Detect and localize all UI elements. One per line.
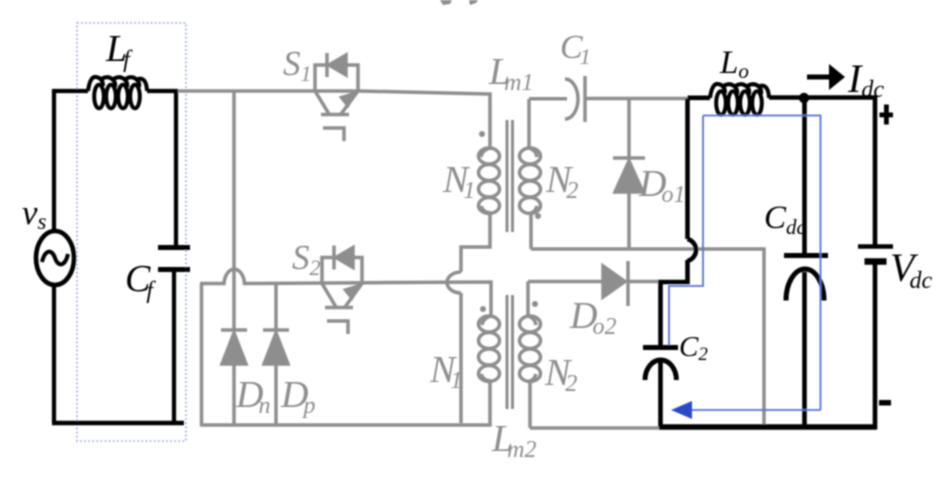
diode Dn bbox=[221, 330, 247, 425]
transformer T1 core bbox=[507, 120, 513, 232]
node junction dot bbox=[799, 93, 809, 103]
gray return rail from T1-N2 bottom to right drop bbox=[531, 249, 764, 427]
gray corner wire from S2 rail down to diode bus bbox=[200, 284, 204, 426]
S2 rail (left segment) with hop over Dn drop bbox=[200, 269, 491, 316]
wire T1-N2 top to C1 bbox=[529, 97, 567, 101]
capacitor C1 bbox=[565, 76, 585, 122]
wire T2-N2 top to Do2 bbox=[528, 280, 603, 284]
capacitor Cdc bbox=[784, 256, 828, 301]
wire C2 bottom to bus bbox=[658, 361, 663, 427]
T2 secondary winding N2 bbox=[520, 282, 541, 429]
wire C1 to Lo node bbox=[585, 97, 689, 101]
wire Vdc bottom leg bbox=[873, 262, 878, 430]
inductor Lo bbox=[688, 96, 711, 101]
gray drop to Dn with crossover of S2 rail bbox=[232, 91, 236, 330]
label + bbox=[880, 105, 894, 125]
wire node to Cdc bbox=[802, 98, 807, 255]
T2 primary winding N1 bbox=[479, 316, 500, 388]
transformer T2 core bbox=[507, 295, 513, 409]
battery Vdc bbox=[858, 247, 893, 262]
wire Cdc bottom to bus bbox=[802, 272, 807, 427]
T1 primary winding N1 bbox=[461, 148, 500, 272]
source vs bbox=[36, 231, 74, 285]
black link wire from C1 rail down to C2 (with hop over return rail) bbox=[685, 99, 690, 240]
diode Dp bbox=[263, 284, 289, 426]
current arrow Idc bbox=[807, 64, 845, 90]
inductor Lf bbox=[88, 77, 147, 108]
blue arrowhead bbox=[671, 401, 692, 419]
capacitor Cf bbox=[158, 248, 190, 270]
top gray rail from filter to S1 and transformer T1 primary bbox=[178, 91, 490, 150]
top margin text fragments bbox=[440, 0, 478, 5]
dot T2 N1 bbox=[480, 306, 486, 312]
T1 secondary winding N2 bbox=[520, 99, 541, 249]
dashed input-filter box bbox=[77, 23, 186, 441]
hop of N1 drop over S2 rail bbox=[447, 272, 461, 293]
switch S1 bbox=[315, 53, 358, 141]
wire Cf bottom to bus bbox=[172, 269, 176, 423]
hop of black link over gray return rail bbox=[688, 239, 697, 261]
bottom-right black bus bbox=[659, 424, 877, 430]
wire Lo to Vdc top bbox=[769, 98, 875, 249]
black link lower jog to C2 bbox=[661, 260, 688, 347]
wire Lf to Cf corner bbox=[147, 91, 176, 245]
dot T2 N2 bbox=[532, 301, 538, 307]
switch S2 bbox=[322, 246, 362, 335]
diode Do1 bbox=[613, 99, 645, 250]
gray T2-N2 bottom bus bbox=[530, 426, 660, 430]
wire vs-top to Lf bbox=[54, 91, 88, 231]
dot T1 N2 bbox=[535, 213, 541, 219]
bottom-left black bus bbox=[52, 421, 184, 426]
T2 primary bottom jog from T1 via hop bbox=[459, 293, 463, 423]
gray bottom bus of rectifier to T2 primary bottom bbox=[200, 388, 490, 425]
dot T1 N1 bbox=[479, 131, 485, 137]
wire vs-bottom bbox=[52, 285, 56, 423]
blue highlighted current loop bbox=[669, 116, 821, 411]
label minus bbox=[879, 400, 891, 406]
capacitor C2 bbox=[643, 348, 678, 381]
diode Do2 bbox=[603, 261, 660, 306]
